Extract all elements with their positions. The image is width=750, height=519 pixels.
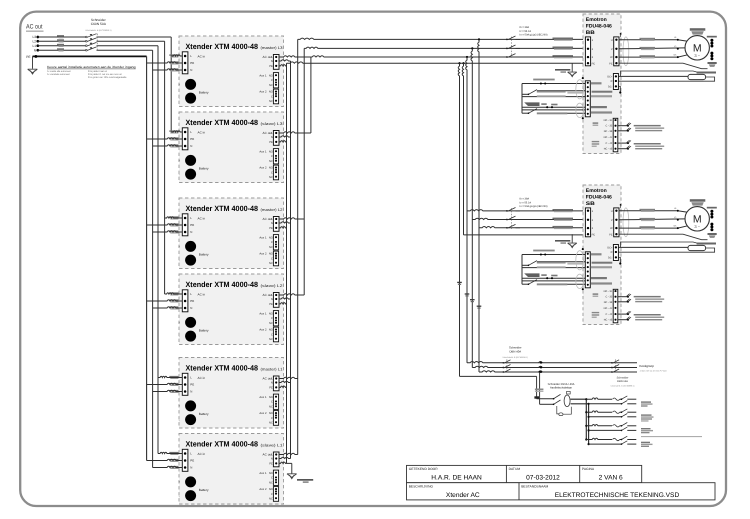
svg-text:DBN 40A: DBN 40A xyxy=(509,349,521,353)
svg-text:Aux 2: Aux 2 xyxy=(259,252,267,256)
svg-text:Keuze aantal installatie autom: Keuze aantal installatie automaten aan d… xyxy=(47,65,136,69)
svg-text:N: N xyxy=(271,222,273,225)
svg-text:FDU48-046: FDU48-046 xyxy=(586,23,612,29)
breaker branch circuit 3 xyxy=(585,425,587,427)
cable marks drive G1 feed xyxy=(553,38,574,40)
breaker pole (drive feed) xyxy=(506,48,508,50)
svg-text:Xtender XTM 4000-48: Xtender XTM 4000-48 xyxy=(186,118,259,127)
svg-text:PAGINA: PAGINA xyxy=(582,467,595,471)
svg-text:NC: NC xyxy=(269,84,273,87)
wire N breaker to drop x=152.6 xyxy=(97,49,153,51)
svg-text:NC: NC xyxy=(269,100,273,103)
wire G2 motor phase U xyxy=(619,210,678,212)
svg-text:FDU48-046: FDU48-046 xyxy=(586,194,612,200)
svg-text:Xtender XTM 4000-48: Xtender XTM 4000-48 xyxy=(186,440,259,449)
svg-text:NC: NC xyxy=(269,262,273,265)
wire G1 motor PE xyxy=(619,63,708,68)
breaker Q1 pole N xyxy=(85,49,87,51)
svg-text:N: N xyxy=(190,306,192,310)
cable marks G1 relay left xyxy=(593,122,599,123)
svg-text:NO - 31: NO - 31 xyxy=(604,290,613,293)
svg-text:(slave) L3: (slave) L3 xyxy=(261,122,283,126)
wire U5 AC-in jumper PE xyxy=(147,383,183,384)
wire U3 AC-out jumper PE xyxy=(279,227,287,228)
inverter U5: Xtender XTM 4000-48 (master) L1 xyxy=(179,358,284,429)
wire RCD output N to branch bus xyxy=(571,403,589,405)
motor mount flange top G2 xyxy=(690,199,706,202)
wire PE drop to system earth xyxy=(291,463,293,473)
cable marks G1 relay right A xyxy=(634,125,661,127)
wire L3 to breaker xyxy=(38,36,86,38)
svg-text:DC+: DC+ xyxy=(607,247,613,250)
wire G2 control bus vertical xyxy=(521,255,523,285)
wire U1 AC-out jumper PE xyxy=(279,65,287,66)
earth electrode bars xyxy=(297,479,313,481)
wire G2 R return xyxy=(618,248,714,252)
svg-text:Aux 1: Aux 1 xyxy=(259,236,267,240)
long cable line branch 3 xyxy=(641,435,702,438)
motor terminals G1 xyxy=(677,39,679,41)
svg-text:+: + xyxy=(178,321,180,325)
wire G1 DC- stub xyxy=(618,86,620,92)
svg-text:C: C xyxy=(271,171,273,174)
svg-text:1x snelle alle automaat: 1x snelle alle automaat xyxy=(47,70,71,73)
wire branch vertical x=467 (phase to G2/kitchen) xyxy=(466,57,467,363)
svg-text:PE: PE xyxy=(609,233,613,236)
connector U4 AC in (L/PE/N) xyxy=(182,290,188,312)
svg-text:PE: PE xyxy=(609,62,613,65)
svg-text:NC: NC xyxy=(269,338,273,341)
svg-text:In = 50A gL/gG (IEC269): In = 50A gL/gG (IEC269) xyxy=(520,33,548,36)
svg-text:U1: U1 xyxy=(674,36,677,39)
svg-text:Battery: Battery xyxy=(199,167,209,171)
svg-text:Iz = 55.2A: Iz = 55.2A xyxy=(520,30,532,33)
cable marks G1 control right xyxy=(591,82,602,84)
svg-text:Xtender XTM 4000-48: Xtender XTM 4000-48 xyxy=(186,42,259,51)
ground G2 input PE earth xyxy=(571,234,573,243)
wire G1 motor phase U xyxy=(619,39,678,41)
svg-text:NC: NC xyxy=(269,246,273,249)
cable marks G1 motor wires xyxy=(640,38,656,40)
svg-text:Aux 2: Aux 2 xyxy=(259,328,267,332)
svg-text:-: - xyxy=(179,96,180,100)
wire G1 control 3 xyxy=(522,106,585,108)
svg-text:BESTANDSNAAM: BESTANDSNAAM xyxy=(521,484,548,488)
svg-text:NC - 33: NC - 33 xyxy=(604,301,613,304)
svg-text:Aux 1: Aux 1 xyxy=(259,312,267,316)
wire G1 motor phase W xyxy=(619,56,678,58)
breaker link dashed xyxy=(510,208,512,229)
cable label block branch 4 xyxy=(641,442,650,443)
wire U4 AC-out jumper L xyxy=(279,294,304,295)
battery terminals U5 xyxy=(185,400,196,411)
wire L2 feed vertical (x=164.6) xyxy=(164,41,166,294)
svg-text:+: + xyxy=(178,83,180,87)
svg-text:PE: PE xyxy=(190,223,194,227)
motor M2 3~ xyxy=(685,207,709,231)
wire U6 AC-out jumper L xyxy=(279,453,298,454)
breaker Q1 pole L3 xyxy=(85,36,87,38)
connector U2 AC in (L/PE/N) xyxy=(182,128,188,150)
svg-text:NO - 31: NO - 31 xyxy=(604,119,613,122)
svg-text:NO: NO xyxy=(269,167,273,170)
svg-text:U: U xyxy=(611,39,613,42)
svg-text:PE: PE xyxy=(269,463,273,466)
svg-text:DC-: DC- xyxy=(608,257,613,260)
wire U1 AC-in jumper PE xyxy=(147,62,183,63)
svg-text:AC in: AC in xyxy=(198,130,206,134)
wire U1 AC-in jumper L xyxy=(171,55,182,56)
cable bundle mark G2 control low xyxy=(524,273,539,277)
connector G2 mains input 1/2/3/PE xyxy=(585,208,590,237)
inverter U6: Xtender XTM 4000-48 (slave) L1 xyxy=(179,434,284,505)
wire G1 control bus vertical xyxy=(521,84,523,114)
svg-text:C60N 50A: C60N 50A xyxy=(91,22,107,26)
cable mark on L2 xyxy=(57,39,64,41)
svg-text:L1: L1 xyxy=(32,44,36,48)
wire U3 AC-out jumper L xyxy=(279,218,304,219)
svg-text:C: C xyxy=(271,417,273,420)
wire U1 AC-in jumper N xyxy=(153,69,183,70)
svg-text:C: C xyxy=(271,317,273,320)
svg-text:AC in: AC in xyxy=(198,54,206,58)
svg-text:NO: NO xyxy=(269,396,273,399)
motor terminal strip right G2 xyxy=(707,207,717,209)
wire branch vertical x=463.5 (PE to G2) xyxy=(462,63,463,235)
svg-text:Battery: Battery xyxy=(199,412,209,416)
wire branch vertical x=479 xyxy=(478,39,479,372)
RCD Q4 switch poles xyxy=(537,398,554,400)
cable marks drive G2 feed xyxy=(553,209,574,211)
svg-text:C - 32: C - 32 xyxy=(606,296,613,299)
svg-text:-: - xyxy=(179,172,180,176)
wire G2 control 2 xyxy=(522,267,585,269)
svg-text:Aardlekschakelaar: Aardlekschakelaar xyxy=(550,387,572,390)
wire branch bus L vertical xyxy=(585,399,587,439)
wire G2 motor phase V xyxy=(619,218,685,221)
svg-text:Schneider 30mA / 40A: Schneider 30mA / 40A xyxy=(548,383,575,386)
svg-text:C: C xyxy=(271,241,273,244)
cable marks U5 AC in xyxy=(169,376,178,377)
wire G1 motor phase V xyxy=(619,47,685,50)
battery terminals U1 xyxy=(185,79,196,90)
wire G2 control 1 xyxy=(522,254,585,256)
svg-text:PE: PE xyxy=(26,55,30,59)
wire L2 to breaker xyxy=(38,40,86,42)
wire G2 DC+ to resistor xyxy=(618,246,688,248)
inverter U2: Xtender XTM 4000-48 (slave) L3 xyxy=(179,112,284,183)
svg-text:NO: NO xyxy=(269,236,273,239)
svg-text:NO: NO xyxy=(269,472,273,475)
breaker Q1 pole L2 xyxy=(85,40,87,42)
svg-text:3 ~: 3 ~ xyxy=(694,53,700,58)
svg-text:N: N xyxy=(190,466,192,470)
svg-text:U: U xyxy=(611,210,613,213)
wire PE feed to drive G2 xyxy=(464,234,586,236)
wire G1 control 1 xyxy=(522,83,585,85)
svg-text:-: - xyxy=(179,494,180,498)
svg-text:PE: PE xyxy=(190,459,194,463)
svg-text:C: C xyxy=(271,477,273,480)
connector G2 motor output U/V/W/PE xyxy=(614,208,619,237)
svg-text:C: C xyxy=(271,333,273,336)
breaker pole (drive feed) xyxy=(506,39,508,41)
wire G1 control 4 xyxy=(522,109,585,111)
svg-text:N: N xyxy=(190,230,192,234)
wire PE bus (thick) xyxy=(33,55,147,57)
battery terminals U4 xyxy=(185,317,196,328)
connector U1 AC in (L/PE/N) xyxy=(182,52,188,74)
svg-text:NO: NO xyxy=(269,150,273,153)
svg-text:(slave) L1: (slave) L1 xyxy=(261,443,283,447)
connector G2 relay outputs xyxy=(613,289,618,323)
cable marks U1 AC in xyxy=(169,54,178,55)
wire G2 DC- stub xyxy=(618,257,620,263)
svg-text:BB: BB xyxy=(586,30,595,36)
switch G2 control S2 xyxy=(522,283,529,285)
junction feeds to sub-circuits xyxy=(478,38,480,40)
cable label block branch 1 xyxy=(641,401,651,402)
wire U2 AC-in jumper PE xyxy=(147,138,183,139)
svg-text:Aux 2: Aux 2 xyxy=(259,90,267,94)
cable mark on N xyxy=(57,48,64,50)
svg-text:Ib = 38A: Ib = 38A xyxy=(520,198,530,201)
svg-text:Xtender AC: Xtender AC xyxy=(446,492,480,499)
connector U6 AC in (L/PE/N) xyxy=(182,449,188,471)
wire U4 AC-in jumper N xyxy=(153,307,183,308)
svg-text:N: N xyxy=(271,60,273,63)
cable shield ellipse G1 motor cable xyxy=(623,37,629,66)
wire phase feed 2 to drive G1 xyxy=(304,47,585,48)
svg-text:C - 42: C - 42 xyxy=(606,142,613,145)
svg-text:Battery: Battery xyxy=(199,329,209,333)
svg-text:Xtender XTM 4000-48: Xtender XTM 4000-48 xyxy=(186,204,259,213)
wire U1 AC-out jumper N xyxy=(279,60,291,61)
cable marks G2 motor wires xyxy=(640,209,656,211)
svg-text:Xtender XTM 4000-48: Xtender XTM 4000-48 xyxy=(186,364,259,373)
svg-text:NO: NO xyxy=(269,412,273,415)
svg-text:1x variabele automaat: 1x variabele automaat xyxy=(47,73,70,76)
svg-text:NO: NO xyxy=(269,91,273,94)
inverter U4: Xtender XTM 4000-48 (slave) L2 xyxy=(179,274,284,345)
cable marks U6 AC in xyxy=(169,452,178,453)
cable marks G1 relay right B xyxy=(634,143,661,145)
svg-text:N: N xyxy=(190,144,192,148)
svg-text:+: + xyxy=(178,159,180,163)
cable mark on L3 xyxy=(57,35,64,37)
wire phase bus A (x=297.7) xyxy=(297,39,299,454)
svg-text:C: C xyxy=(271,493,273,496)
svg-text:Xtender XTM 4000-48: Xtender XTM 4000-48 xyxy=(186,280,259,289)
svg-text:Emotron: Emotron xyxy=(586,17,607,23)
cable marks G2 relay right A xyxy=(634,296,661,298)
wire U5 AC-in jumper L xyxy=(158,376,182,377)
svg-text:NC - 33: NC - 33 xyxy=(604,130,613,133)
svg-text:Aux 1: Aux 1 xyxy=(259,395,267,399)
wire U2 AC-in jumper L xyxy=(171,131,182,132)
wire branch vertical x=459.5 (N) xyxy=(458,63,459,376)
svg-text:07-03-2012: 07-03-2012 xyxy=(526,475,560,482)
connector G1 DC+/R/DC- xyxy=(613,74,618,90)
svg-text:Battery: Battery xyxy=(199,91,209,95)
wire phase bus B (x=304.2) xyxy=(303,48,305,295)
svg-text:C - 42: C - 42 xyxy=(606,313,613,316)
wire U4 AC-out jumper N xyxy=(279,298,291,299)
inverter U1: Xtender XTM 4000-48 (master) L3 xyxy=(179,36,284,107)
wire phase feed 1 to drive G2 xyxy=(467,210,585,211)
wire branch bus N vertical xyxy=(588,404,590,444)
ground (system earth bottom) xyxy=(287,474,297,479)
connector G1 control terminals xyxy=(585,81,590,117)
svg-text:(master) L3: (master) L3 xyxy=(261,46,283,50)
connector G1 mains input 1/2/3/PE xyxy=(585,37,590,66)
svg-text:NO: NO xyxy=(269,74,273,77)
breaker pole (drive feed) xyxy=(506,227,508,229)
wire G2 brake resistor shield xyxy=(621,242,700,247)
wire kitchen L2 xyxy=(472,366,637,367)
svg-text:NC: NC xyxy=(269,176,273,179)
wire L3 feed vertical (x=171.2) xyxy=(170,37,172,132)
cable marks G1 control mid xyxy=(537,91,566,93)
svg-text:C - 32: C - 32 xyxy=(606,125,613,128)
svg-text:N: N xyxy=(271,298,273,301)
wire U3 AC-in jumper L xyxy=(165,217,183,218)
wire RCD output L to branch bus xyxy=(571,398,587,400)
cable mark on L1 xyxy=(57,44,64,46)
breaker Q1 mechanical link (dashed) xyxy=(96,34,98,52)
svg-text:C: C xyxy=(271,155,273,158)
battery terminals U6 xyxy=(185,476,196,487)
svg-text:L2: L2 xyxy=(32,39,36,43)
svg-text:R: R xyxy=(611,251,613,254)
svg-text:Battery: Battery xyxy=(199,253,209,257)
svg-text:NO: NO xyxy=(269,329,273,332)
connector U3 AC in (L/PE/N) xyxy=(182,214,188,236)
drive G1: Emotron FDU48-046 BB xyxy=(583,14,621,154)
breaker pole (drive feed) xyxy=(506,210,508,212)
svg-text:Iz = 55.2A: Iz = 55.2A xyxy=(520,201,532,204)
wire G1 R return xyxy=(618,77,714,81)
svg-text:2 VAN 6: 2 VAN 6 xyxy=(599,475,623,482)
svg-text:W1: W1 xyxy=(674,54,678,57)
wire L1 feed vertical (x=158) xyxy=(157,46,159,454)
wire G2 motor phase W xyxy=(619,227,678,229)
cable bundle mark G1 control low xyxy=(524,102,539,106)
svg-text:N: N xyxy=(271,136,273,139)
cable shield ellipse G2 motor cable xyxy=(623,208,629,237)
wire G2 control 3 xyxy=(522,277,585,279)
breaker branch circuit 2 xyxy=(585,411,587,413)
cable shield ellipses G2 control xyxy=(576,251,584,270)
svg-text:H.A.R. DE HAAN: H.A.R. DE HAAN xyxy=(431,475,482,482)
svg-text:U1: U1 xyxy=(674,207,677,210)
svg-text:NO: NO xyxy=(269,312,273,315)
cable marks U2 AC in xyxy=(169,130,178,131)
svg-text:Kookgroep: Kookgroep xyxy=(639,364,654,368)
cable marks G2 control right xyxy=(591,253,602,255)
ground G1 input PE earth xyxy=(571,63,573,72)
svg-text:DC+: DC+ xyxy=(607,76,613,79)
svg-text:(master) L1: (master) L1 xyxy=(261,367,283,371)
svg-text:NC - 43: NC - 43 xyxy=(604,148,613,151)
wire U2 AC-out jumper PE xyxy=(279,141,287,142)
svg-text:Aux 2: Aux 2 xyxy=(259,166,267,170)
wire G2 motor PE xyxy=(619,234,708,240)
RCD core ellipse xyxy=(567,391,571,394)
svg-text:PE: PE xyxy=(190,299,194,303)
svg-text:PE: PE xyxy=(592,233,596,236)
wire U2 AC-out jumper L xyxy=(279,132,311,133)
wire G1 relay contacts out xyxy=(618,125,628,127)
wire U4 AC-in jumper L xyxy=(165,293,183,294)
svg-text:NO - 41: NO - 41 xyxy=(604,136,613,139)
wire L1 breaker to drop x=158.0 xyxy=(97,45,159,47)
svg-text:GETEKEND DOOR: GETEKEND DOOR xyxy=(409,467,439,471)
svg-text:(slave) L2: (slave) L2 xyxy=(261,284,283,288)
svg-text:NC - 43: NC - 43 xyxy=(604,319,613,322)
wire U5 AC-out jumper PE xyxy=(279,386,287,387)
breaker pole (drive feed) xyxy=(506,56,508,58)
svg-text:NC: NC xyxy=(269,405,273,408)
svg-text:AC in: AC in xyxy=(198,292,206,296)
wire U5 AC-out jumper N xyxy=(279,381,291,382)
breaker Q2 kitchen 3-pole xyxy=(502,362,504,364)
svg-text:AC in: AC in xyxy=(198,376,206,380)
svg-text:NC: NC xyxy=(269,497,273,500)
wire G2 control 4 xyxy=(522,280,585,282)
wire RCD feed drop L xyxy=(536,376,538,398)
motor mount flange top G1 xyxy=(690,28,706,31)
svg-text:NO - 41: NO - 41 xyxy=(604,307,613,310)
switch G1 control S2 xyxy=(522,112,529,114)
svg-text:+: + xyxy=(178,404,180,408)
svg-text:NO: NO xyxy=(269,253,273,256)
RCD test button loop xyxy=(557,406,559,414)
svg-text:AC in: AC in xyxy=(198,216,206,220)
svg-text:+: + xyxy=(178,480,180,484)
svg-text:al dan niet via de Gira PV-kas: al dan niet via de Gira PV-kast xyxy=(640,369,667,372)
switch G1 control S1 xyxy=(522,93,529,95)
svg-text:ELEKTROTECHNISCHE TEKENING.VSD: ELEKTROTECHNISCHE TEKENING.VSD xyxy=(555,492,680,499)
svg-text:DATUM: DATUM xyxy=(509,467,521,471)
svg-text:N: N xyxy=(34,48,37,52)
cable label block branch 3 xyxy=(641,428,651,429)
svg-text:N: N xyxy=(271,382,273,385)
wire RCD feed drop N xyxy=(539,371,541,373)
junction blob RCD drop xyxy=(534,396,539,398)
svg-text:NC: NC xyxy=(269,481,273,484)
svg-text:3 ~: 3 ~ xyxy=(694,224,700,229)
svg-text:PE: PE xyxy=(190,61,194,65)
cable mark RCD drop xyxy=(535,389,544,391)
svg-text:PE: PE xyxy=(190,137,194,141)
svg-text:AC in: AC in xyxy=(198,452,206,456)
cable label block branch 2 xyxy=(641,414,652,415)
battery terminals U3 xyxy=(185,241,196,252)
wire U6 AC-out jumper N xyxy=(279,457,291,458)
motor mount flange bottom G2 xyxy=(708,233,717,235)
cable marks U3 AC in xyxy=(169,216,178,217)
svg-text:Uitschakelk. B (IEC60898-1): Uitschakelk. B (IEC60898-1) xyxy=(85,29,112,32)
motor terminals G2 xyxy=(677,210,679,212)
svg-text:NC: NC xyxy=(269,160,273,163)
breaker branch circuit 4 xyxy=(585,438,587,440)
svg-text:BESCHRIJVING: BESCHRIJVING xyxy=(409,484,434,488)
breaker Q1 pole L1 xyxy=(85,45,87,47)
svg-text:C: C xyxy=(271,257,273,260)
svg-text:PE: PE xyxy=(269,65,273,68)
inverter U3: Xtender XTM 4000-48 (master) L2 xyxy=(179,198,284,269)
